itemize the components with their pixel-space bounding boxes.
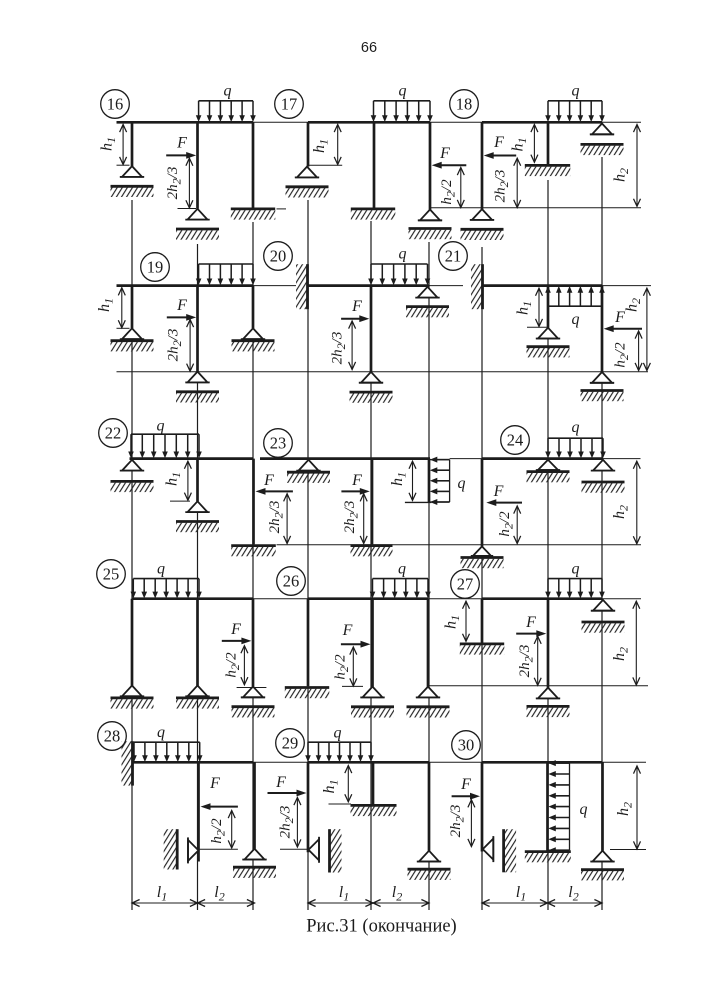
svg-text:q: q — [334, 725, 342, 742]
frame29 F label — [275, 774, 286, 791]
svg-text:F: F — [263, 472, 274, 489]
frame 19 number — [141, 253, 170, 282]
frame30 h2 label — [615, 802, 635, 816]
frame20 2h2/3 label — [330, 332, 349, 365]
frame16 beam — [117, 121, 254, 124]
frame17 right roller support — [409, 210, 452, 240]
svg-text:F: F — [275, 774, 286, 791]
extension line x=132 — [131, 200, 133, 910]
frame25 left pinned support — [111, 686, 154, 709]
frame24 beam level tick — [603, 458, 641, 460]
svg-text:q: q — [157, 418, 165, 435]
frame17 middle fixed support — [351, 209, 396, 220]
svg-text:q: q — [224, 83, 232, 100]
frame25 right column — [252, 599, 255, 687]
frame23 h1 tick / column end — [405, 501, 432, 503]
frame28 l2 label — [214, 884, 224, 904]
frame22 distributed load q — [128, 434, 202, 458]
frame27 beam — [482, 597, 602, 600]
row4 beam connector 25-26 — [254, 598, 308, 600]
frame24 beam — [482, 457, 603, 460]
frame20 2h2/3 dimension — [349, 321, 356, 370]
frame29 q label — [334, 725, 342, 742]
frame25 middle pinned support — [176, 686, 219, 709]
frame16 fixed tick — [277, 208, 287, 210]
frame19 h1 dimension — [118, 288, 125, 328]
row2 beam connector 20-21 — [429, 285, 463, 287]
frame28 h2/2 label — [209, 818, 228, 844]
frame19 2h2/3 label — [166, 329, 185, 362]
frame23 h1 label — [389, 472, 409, 486]
row5 beam connector 29-30 — [429, 761, 482, 763]
svg-text:q: q — [399, 246, 407, 263]
page number — [361, 40, 377, 56]
svg-text:h2/2: h2/2 — [613, 342, 632, 368]
frame23 F label — [351, 472, 362, 489]
frame25 right roller support — [232, 687, 275, 718]
frame29 right column — [428, 762, 431, 850]
frame20 F label — [351, 298, 362, 315]
row2 bottom reference line — [117, 371, 649, 373]
frame29 middle fixed support — [351, 805, 397, 816]
frame21 h1 label — [515, 301, 535, 315]
row5 beam connector 28-29 — [254, 761, 309, 763]
svg-text:26: 26 — [283, 572, 300, 591]
frame23 q label — [458, 475, 466, 492]
frame19 beam — [117, 284, 254, 287]
svg-text:h2/2: h2/2 — [224, 652, 243, 678]
frame24 h2/2 dimension — [514, 506, 521, 544]
frame21 middle column — [547, 286, 550, 328]
frame28 h2/2 tick — [199, 848, 238, 850]
frame30 middle fixed support — [525, 852, 571, 863]
frame26 right roller support — [407, 687, 450, 718]
frame24 left column — [481, 459, 484, 547]
svg-text:29: 29 — [282, 734, 299, 753]
frame26 beam — [308, 597, 429, 600]
svg-text:30: 30 — [458, 736, 475, 755]
frame21 h1 dimension — [536, 288, 543, 326]
frame24 F label — [493, 483, 504, 500]
frame19 F label — [176, 297, 187, 314]
frame27 middle column — [547, 599, 550, 688]
extension line x=253 — [252, 222, 254, 910]
svg-text:18: 18 — [456, 95, 473, 114]
frame 30 number — [452, 731, 481, 760]
frame17 h2/2 label — [439, 179, 458, 205]
frame30 2h2/3 label — [448, 805, 467, 838]
frame28 F label — [209, 775, 220, 792]
frame16 middle roller support — [176, 209, 219, 240]
frame25 beam — [132, 597, 254, 600]
svg-text:q: q — [572, 561, 580, 578]
frame25 h2/2 dimension — [241, 646, 248, 685]
frame23 middle fixed support — [351, 546, 393, 557]
frame30 h2 dimension — [634, 766, 641, 849]
frame17 distributed load q — [371, 101, 433, 122]
svg-text:F: F — [342, 622, 353, 639]
frame 24 number — [501, 426, 530, 455]
frame27 h2 dimension — [633, 601, 640, 685]
frame30 middle column — [546, 762, 549, 850]
frame21 wall support — [471, 264, 483, 309]
frame21 h2/2 dimension — [635, 331, 642, 371]
frame29 force F — [268, 790, 307, 797]
svg-text:q: q — [399, 83, 407, 100]
frame29 l2 dimension — [373, 900, 429, 907]
frame21 right column — [601, 286, 604, 372]
frame28 distributed load q — [131, 742, 202, 762]
frame18 q label — [572, 83, 580, 100]
svg-text:23: 23 — [270, 434, 287, 453]
frame28 l1 dimension — [132, 900, 198, 907]
frame24 distributed load q — [545, 438, 606, 458]
svg-text:25: 25 — [103, 565, 120, 584]
extension line x=197.5 — [197, 244, 199, 910]
frame27 F label — [525, 614, 536, 631]
frame21 distributed load q — [545, 286, 605, 306]
frame20 distributed load q — [368, 264, 430, 285]
frame26 h2/2 label — [333, 654, 352, 680]
frame27 middle roller support — [527, 688, 570, 718]
svg-text:66: 66 — [361, 40, 377, 56]
svg-text:28: 28 — [104, 727, 121, 746]
frame19 left pinned support — [111, 328, 154, 351]
frame17 left roller support — [286, 167, 329, 198]
frame22 left roller under beam — [111, 460, 154, 492]
frame 16 number — [101, 90, 130, 119]
frame22 middle column — [196, 459, 199, 502]
frame16 left column — [131, 122, 134, 166]
frame19 force F — [167, 314, 196, 321]
svg-text:q: q — [458, 475, 466, 492]
frame30 beam — [482, 761, 602, 764]
frame20 force F — [341, 315, 369, 322]
frame28 roller wall — [164, 829, 178, 869]
row4 bottom reference line — [428, 685, 648, 687]
frame 22 number — [99, 419, 128, 448]
frame30 l2 label — [568, 884, 578, 904]
frame30 roller wall — [504, 829, 516, 872]
frame16 middle column — [196, 122, 199, 209]
frame27 q label — [572, 561, 580, 578]
frame28 wall support — [122, 741, 133, 785]
frame26 q label — [398, 561, 406, 578]
frame16 q label — [224, 83, 232, 100]
frame28 beam — [133, 761, 254, 764]
frame22 2h2/3 dimension — [284, 494, 291, 544]
frame29 right roller support — [408, 851, 451, 880]
svg-text:F: F — [493, 134, 504, 151]
frame30 force F — [452, 793, 480, 800]
svg-text:16: 16 — [107, 95, 124, 114]
frame29 beam — [308, 761, 429, 764]
frame16 right fixed support — [231, 209, 275, 220]
frame23 right column — [428, 459, 431, 503]
frame26 F label — [342, 622, 353, 639]
frame23 2h2/3 label — [342, 501, 361, 534]
frame 28 number — [98, 722, 127, 751]
frame21 right roller support — [581, 372, 624, 401]
svg-text:19: 19 — [147, 258, 164, 277]
frame21 h2 label — [624, 298, 644, 312]
frame24 right roller under beam — [582, 460, 625, 493]
frame27 h2 label — [611, 647, 631, 661]
row2 beam connector 19-20 — [253, 285, 296, 287]
frame24 q label — [572, 419, 580, 436]
frame 17 number — [275, 90, 304, 119]
frame30 q label — [580, 801, 588, 818]
frame23 distributed load q — [429, 457, 450, 505]
frame19 right pinned support — [232, 328, 275, 351]
frame17 right column — [429, 122, 432, 209]
row3 beam connector 23-24 — [450, 458, 482, 460]
frame25 left column — [131, 599, 134, 686]
frame26 right column — [427, 599, 430, 687]
frame24 h2 dimension — [633, 461, 640, 544]
frame18 left column — [481, 122, 484, 209]
frame 25 number — [97, 560, 126, 589]
svg-text:q: q — [157, 724, 165, 741]
svg-text:F: F — [230, 621, 241, 638]
frame18 h2 label — [612, 168, 632, 182]
frame30 2h2/3 dimension — [468, 800, 475, 847]
frame24 h2/2 label — [497, 511, 516, 537]
frame21 h2/2 label — [613, 342, 632, 368]
frame23 force F — [341, 488, 369, 495]
frame16 h1 dimension — [120, 125, 127, 165]
extension line x=548 — [547, 180, 549, 910]
frame 18 number — [450, 90, 479, 119]
frame24 middle pinned under beam — [527, 460, 570, 483]
frame21 force F — [604, 325, 642, 332]
frame16 right column — [252, 122, 255, 208]
frame 29 number — [276, 729, 305, 758]
frame28 l2 dimension — [198, 900, 255, 907]
frame19 h1 label — [96, 298, 116, 312]
frame20 q label — [399, 246, 407, 263]
frame26 force F — [341, 641, 371, 648]
frame27 h1 dimension — [463, 601, 470, 641]
svg-text:q: q — [572, 419, 580, 436]
svg-text:h2/2: h2/2 — [209, 818, 228, 844]
frame16 2h2/3 label — [165, 167, 184, 200]
frame22 h1 tick — [170, 500, 190, 502]
frame22 h1 label — [164, 472, 184, 486]
frame22 force F — [256, 488, 293, 495]
frame28 right roller support — [233, 849, 276, 878]
svg-text:Рис.31 (окончание): Рис.31 (окончание) — [306, 917, 456, 937]
extension line x=482 — [481, 247, 483, 910]
frame16 force F — [166, 152, 196, 159]
frame 21 number — [439, 242, 468, 271]
frame17 h1 label — [311, 139, 331, 153]
frame29 l1 label — [339, 884, 349, 904]
frame19 right column — [252, 286, 255, 329]
frame28 middle column — [197, 762, 200, 861]
frame29 h1 label — [321, 780, 341, 794]
figure caption — [306, 917, 456, 937]
frame27 h1 label — [443, 615, 463, 629]
frame23 left pinned support — [287, 460, 330, 483]
extension line x=429 — [428, 242, 430, 910]
frame30 h2 bottom tick — [610, 849, 646, 851]
frame20 beam — [307, 284, 429, 287]
frame29 distributed load q — [305, 742, 374, 762]
frame25 h2/2 tick — [237, 687, 267, 689]
frame22 2h2/3 label — [267, 501, 286, 534]
frame 20 number — [264, 242, 293, 271]
svg-text:q: q — [572, 311, 580, 328]
frame 27 number — [451, 570, 480, 599]
frame30 l1 label — [516, 884, 526, 904]
frame18 h1 dimension — [531, 125, 538, 163]
frame18 h2 dimension — [634, 125, 641, 207]
frame25 h2/2 label — [224, 652, 243, 678]
frame17 beam — [308, 121, 430, 124]
svg-text:F: F — [460, 776, 471, 793]
frame27 distributed load q — [545, 579, 605, 599]
svg-text:q: q — [572, 83, 580, 100]
frame21 h1 tick — [527, 326, 547, 328]
frame28 q label — [157, 724, 165, 741]
frame29 left column — [307, 762, 310, 852]
frame28 middle side roller — [188, 837, 199, 863]
frame26 middle column — [371, 599, 374, 687]
frame28 h2/2 dimension — [228, 811, 235, 849]
frame26 distributed load q — [370, 579, 431, 599]
frame26 middle roller support — [351, 687, 394, 718]
frame23 h1 dimension — [409, 461, 416, 500]
frame29 l1 dimension — [308, 900, 373, 907]
frame18 beam — [482, 121, 602, 124]
frame25 q label — [157, 561, 165, 578]
frame18 middle column — [547, 122, 550, 164]
svg-text:F: F — [209, 775, 220, 792]
frame29 h1 dimension — [345, 766, 352, 802]
row1 beam connector 16-17 — [253, 121, 308, 123]
frame29 2h2/3 tick — [280, 848, 308, 850]
frame30 F label — [460, 776, 471, 793]
svg-text:F: F — [525, 614, 536, 631]
frame25 distributed load q — [131, 579, 202, 599]
svg-text:F: F — [176, 297, 187, 314]
svg-text:F: F — [493, 483, 504, 500]
svg-text:24: 24 — [507, 431, 524, 450]
svg-text:q: q — [398, 561, 406, 578]
frame18 2h2/3 dimension — [514, 158, 521, 207]
frame18 right roller under beam — [581, 124, 624, 156]
frame23 beam — [260, 457, 430, 460]
svg-text:21: 21 — [445, 247, 462, 266]
frame25 force F — [222, 638, 252, 645]
frame16 2h2/3 dimension — [186, 158, 193, 208]
row3 bottom reference line — [277, 544, 642, 546]
frame27 beam level tick — [602, 598, 641, 600]
svg-text:22: 22 — [105, 424, 122, 443]
frame24 left pinned support — [461, 546, 504, 568]
frame18 force F — [484, 152, 517, 159]
svg-text:17: 17 — [281, 95, 298, 114]
frame21 middle roller support — [527, 328, 570, 358]
frame30 right column — [601, 762, 604, 850]
frame28 right column — [253, 762, 256, 848]
frame 23 number — [264, 429, 293, 458]
frame29 l2 label — [392, 884, 402, 904]
extension line x=308 — [307, 200, 309, 910]
frame22 F label — [263, 472, 274, 489]
frame17 h2/2 dimension — [457, 168, 464, 208]
frame17 q label — [399, 83, 407, 100]
frame17 left column — [307, 122, 310, 166]
frame30 l1 dimension — [482, 900, 548, 907]
frame19 middle column — [196, 286, 199, 372]
extension line x=371 — [370, 221, 372, 910]
frame17 h1 tick — [309, 164, 343, 166]
svg-text:q: q — [157, 561, 165, 578]
frame28 force F — [201, 803, 238, 810]
frame27 left fixed support — [460, 644, 505, 655]
frame29 h1 tick — [329, 803, 352, 805]
frame21 beam level tick — [602, 285, 651, 287]
frame27 force F — [516, 630, 546, 637]
frame22 q label — [157, 418, 165, 435]
frame23 2h2/3 dimension — [360, 494, 367, 544]
frame16 h1 tick — [117, 164, 130, 166]
frame22 right fixed support — [231, 546, 276, 557]
frame18 F label — [493, 134, 504, 151]
frame21 F label — [614, 309, 625, 326]
svg-text:20: 20 — [270, 247, 287, 266]
frame21 beam — [483, 284, 602, 287]
frame17 F label — [439, 145, 450, 162]
frame19 left column — [131, 286, 134, 329]
frame30 right roller support — [581, 851, 624, 881]
frame 26 number — [277, 567, 306, 596]
frame29 roller wall — [330, 829, 342, 872]
frame18 h1 label — [510, 138, 530, 152]
svg-text:F: F — [439, 145, 450, 162]
frame26 left fixed support — [285, 688, 330, 699]
frame29 middle column — [372, 762, 375, 804]
svg-text:h2/2: h2/2 — [439, 179, 458, 205]
frame17 h1 dimension — [334, 125, 341, 165]
frame27 left column — [481, 599, 484, 643]
frame24 h2 label — [611, 505, 631, 519]
frame18 2h2/3 label — [493, 170, 512, 203]
frame27 2h2/3 dimension — [534, 636, 541, 685]
svg-text:F: F — [176, 135, 187, 152]
frame30 distributed load q — [548, 760, 570, 853]
frame21 h2 dimension — [643, 288, 650, 370]
frame16 left roller support — [111, 166, 154, 197]
frame20 middle column — [370, 286, 373, 372]
frame19 middle roller support — [176, 372, 219, 403]
svg-text:q: q — [580, 801, 588, 818]
svg-text:h2/2: h2/2 — [333, 654, 352, 680]
frame30 l2 dimension — [548, 900, 603, 907]
frame18 bottom reference line — [429, 207, 641, 209]
row1 beam connector 17-18 — [430, 121, 482, 123]
frame18 beam level tick — [602, 121, 641, 123]
frame20 wall support — [296, 264, 308, 309]
frame29 left side roller — [309, 837, 320, 863]
frame21 q label — [572, 311, 580, 328]
svg-text:F: F — [351, 472, 362, 489]
frame26 h2/2 dimension — [350, 647, 357, 686]
frame19 distributed load q — [196, 264, 256, 285]
frame25 middle column — [196, 599, 199, 686]
